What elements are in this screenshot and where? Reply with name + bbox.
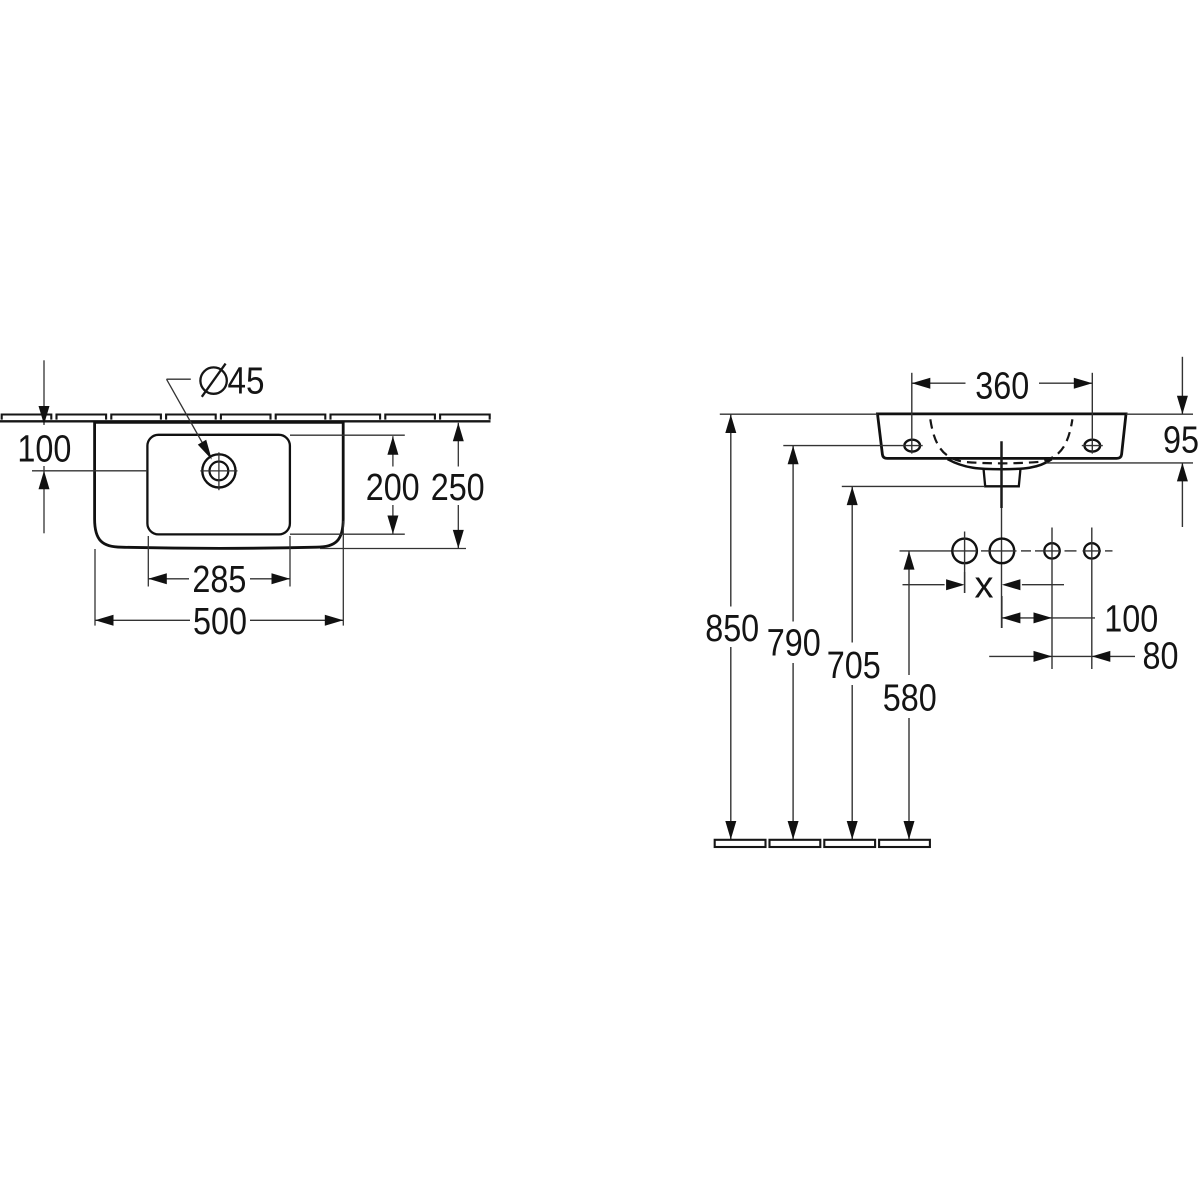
dimension 80 (hole spacing) <box>989 655 1135 657</box>
dimension 100 (hole spacing) <box>1001 596 1003 628</box>
dash-dot line through holes <box>981 550 1113 552</box>
svg-text:45: 45 <box>228 361 265 403</box>
svg-text:80: 80 <box>1143 636 1179 678</box>
dimension 285 (inner width) <box>147 536 149 587</box>
svg-text:100: 100 <box>1104 599 1158 641</box>
svg-text:790: 790 <box>767 623 821 665</box>
850 dimension line <box>720 413 878 415</box>
svg-text:200: 200 <box>366 467 420 509</box>
705 dimension line <box>842 485 985 487</box>
svg-text:580: 580 <box>883 678 937 720</box>
left mounting hole <box>904 440 920 452</box>
svg-text:850: 850 <box>705 608 759 650</box>
right mounting hole <box>1085 440 1101 452</box>
dimension 360 <box>911 373 913 454</box>
dimension 100 (wall to tap) <box>43 360 45 425</box>
svg-text:100: 100 <box>17 429 71 471</box>
centerline through drain and hole2 <box>1000 441 1003 508</box>
580 dimension line <box>900 550 953 552</box>
basin outer outline <box>95 422 344 548</box>
diameter symbol <box>200 367 226 393</box>
dimension 200 (inner depth) <box>290 434 405 436</box>
svg-text:250: 250 <box>431 467 485 509</box>
wall line <box>0 420 491 422</box>
leader to tap hole <box>167 378 191 380</box>
basin front outline <box>878 414 1127 459</box>
wall tile segments <box>2 415 490 420</box>
dashed inner bowl <box>930 419 1072 463</box>
dimension x <box>903 584 945 586</box>
dimension 250 (outer depth) <box>320 548 466 550</box>
floor tiles <box>715 840 930 847</box>
fixing hole 4 <box>1084 543 1099 558</box>
fixing hole 2 <box>990 539 1015 564</box>
drain <box>984 470 1021 487</box>
svg-text:500: 500 <box>193 601 247 643</box>
basin inner bowl <box>147 435 290 535</box>
fixing hole 3 <box>1044 543 1059 558</box>
dimension 500 (outer width) <box>94 549 96 626</box>
dimension 95 <box>1126 413 1193 415</box>
svg-text:705: 705 <box>827 645 881 687</box>
790 dimension line <box>783 445 922 447</box>
svg-text:285: 285 <box>192 559 246 601</box>
svg-text:360: 360 <box>975 365 1029 407</box>
svg-text:x: x <box>975 564 994 606</box>
svg-text:95: 95 <box>1163 419 1199 461</box>
fixing hole 1 <box>952 539 977 564</box>
solid bowl underside <box>948 459 1052 469</box>
tap hole <box>202 454 235 487</box>
